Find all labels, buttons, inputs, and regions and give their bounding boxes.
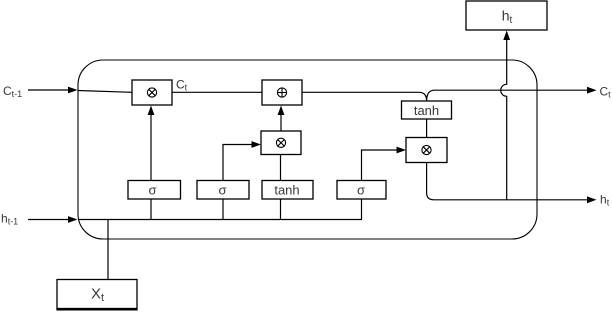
svg-text:σ: σ [357,183,365,198]
wire adder to tanh fork [302,92,427,101]
wire multiply X1 to adder [172,91,262,93]
wire sigma2 to multiply X2 [223,145,252,181]
svg-text:σ: σ [218,183,226,198]
adder P1 (plus) [262,80,302,105]
LSTM cell boundary rounded rectangle [78,60,537,239]
wire tanh bottom to multiply X2 [280,155,282,181]
wire tanh U1 to multiply X3 [426,119,428,138]
gate sigma2 (input) [197,181,249,200]
wire ht-1 input arrow [28,216,78,223]
wire sigma1 bottom stub [150,199,152,220]
wire sigma2 bottom stub [222,199,224,220]
wire multiply X3 down to ht output line [427,163,588,200]
gate sigma3 (output) [337,181,386,200]
block ht output box [466,1,547,30]
wire Xt riser [107,220,109,280]
tanh U2 (candidate) [262,181,313,200]
wire sigma1 to multiply X1 arrow [150,114,152,181]
tanh U1 (output tanh) [402,101,452,119]
wire Ct-1 input arrow [28,87,78,94]
wire boundary to forget gate multiply [78,91,132,93]
multiplier X2 (input gate) [261,131,301,155]
wire tanh bottom stub [280,199,282,220]
wire ht output arrowhead [587,196,597,203]
svg-text:tanh: tanh [414,103,439,118]
wire tanh fork to Ct output [427,90,588,101]
wire Ct output arrowhead [587,87,597,94]
block Xt input box [56,280,137,310]
wire sigma3 to multiply X3 [362,150,398,181]
gate sigma1 (forget) [128,181,181,200]
svg-text:tanh: tanh [274,183,299,198]
wire ht branch up with jump over C line [501,39,507,200]
svg-text:σ: σ [148,183,156,198]
multiplier X1 (forget gate) [132,80,172,105]
wire multiply X2 up to adder arrow [280,114,282,131]
multiplier X3 (output gate) [406,138,447,163]
wire ht-1 bus [78,199,362,220]
wire ht branch arrowhead [503,31,510,41]
